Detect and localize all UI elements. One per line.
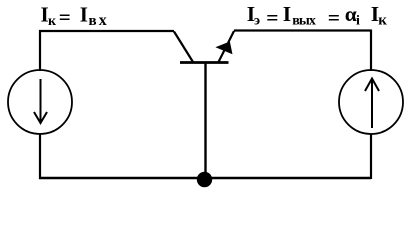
wire top-left horizontal (39, 30, 174, 32)
label Iк = Iвх (41, 3, 107, 30)
svg-text:=: = (328, 6, 340, 30)
current source I2 (right, arrow up) (339, 70, 403, 134)
label Iэ = Iвых = αi Iк (247, 2, 388, 30)
svg-text:α: α (345, 2, 357, 26)
node junction dot (197, 172, 212, 187)
svg-text:=: = (59, 5, 71, 29)
svg-text:=: = (266, 6, 278, 30)
wire bottom horizontal (39, 177, 371, 179)
wire left vertical lower (39, 133, 41, 179)
svg-text:х: х (99, 12, 107, 29)
svg-text:I: I (80, 3, 88, 27)
svg-text:э: э (254, 14, 260, 29)
svg-text:вых: вых (292, 14, 316, 29)
wire left vertical upper (39, 30, 41, 71)
svg-text:в: в (89, 13, 97, 29)
wire top-right horizontal (234, 29, 371, 31)
wire right vertical upper (370, 30, 372, 72)
svg-text:i: i (356, 14, 360, 29)
current source I1 (left, arrow down) (8, 70, 72, 134)
transistor VT1 (174, 31, 234, 63)
wire right vertical lower (370, 134, 372, 179)
svg-text:I: I (283, 2, 291, 26)
wire base lead vertical (204, 63, 206, 178)
svg-text:к: к (48, 14, 57, 29)
svg-text:к: к (378, 13, 387, 29)
